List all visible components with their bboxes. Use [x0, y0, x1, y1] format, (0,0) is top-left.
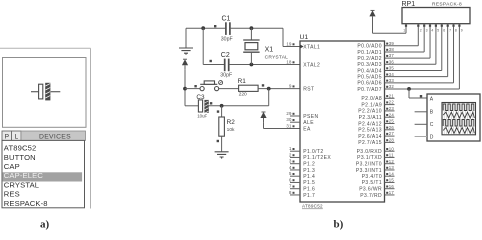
svg-text:ALE: ALE	[303, 120, 314, 126]
svg-text:6: 6	[289, 177, 292, 182]
preview CAP-ELEC symbol	[31, 83, 60, 101]
svg-text:C1: C1	[222, 15, 231, 22]
pin 9 RST	[289, 84, 314, 93]
svg-text:a): a)	[40, 218, 50, 230]
push button	[200, 81, 223, 91]
svg-text:CAP-ELEC: CAP-ELEC	[4, 171, 44, 180]
pin-end marker button-left	[194, 85, 196, 87]
svg-text:XTAL2: XTAL2	[303, 62, 320, 68]
svg-text:17: 17	[389, 190, 395, 195]
svg-text:PSEN: PSEN	[303, 114, 318, 120]
svg-text:P1.3: P1.3	[303, 168, 315, 174]
pin 12 P3.2/INT0	[356, 159, 395, 168]
svg-text:U1: U1	[300, 34, 309, 41]
wire VCC down to C3 row	[185, 70, 198, 106]
pin 5 P1.4	[289, 171, 315, 180]
resistor R1	[238, 78, 259, 98]
RP1 pin 3 / wire to P0.1	[385, 24, 428, 52]
svg-text:R2: R2	[227, 119, 236, 126]
svg-text:BUTTON: BUTTON	[4, 153, 36, 162]
ground (crystal caps)	[179, 28, 193, 55]
svg-text:CAP: CAP	[4, 162, 20, 171]
label AT89C52	[302, 204, 323, 209]
svg-text:6: 6	[443, 29, 445, 33]
svg-text:38: 38	[389, 47, 395, 52]
svg-text:C2: C2	[221, 52, 230, 59]
svg-text:P2.6/A14: P2.6/A14	[358, 134, 382, 140]
selected row highlight CAP-ELEC	[3, 171, 83, 181]
svg-text:10: 10	[389, 146, 395, 151]
wire C2 to XTAL2 pin	[229, 64, 300, 66]
wire gnd bus C1 to C2	[203, 28, 224, 64]
pin 16 P3.6/WR	[359, 184, 394, 193]
scope trace C (square)	[443, 120, 474, 127]
svg-text:35: 35	[389, 66, 395, 71]
svg-text:31: 31	[286, 123, 292, 128]
pin 8 P1.7	[289, 190, 315, 199]
node button/VCC junction	[183, 87, 187, 91]
pin-end marker C1	[214, 25, 216, 27]
capacitor C2	[220, 52, 232, 78]
svg-text:P3.3/INT1: P3.3/INT1	[356, 168, 382, 174]
scope trace A (square)	[443, 104, 474, 111]
RP1 pin 7 / wire to P0.5	[385, 24, 452, 77]
pin 39 P0.0/AD0	[357, 41, 394, 50]
wire stub scope C	[415, 123, 427, 125]
svg-text:P0.7/AD7: P0.7/AD7	[357, 87, 382, 93]
RP1 pin 4 / wire to P0.2	[385, 24, 434, 58]
power VCC terminal (reset)	[182, 59, 188, 70]
device list box	[2, 140, 85, 207]
svg-text:P1.5: P1.5	[303, 180, 315, 186]
node XTAL1 net	[250, 26, 254, 30]
svg-text:P2.5/A13: P2.5/A13	[358, 128, 382, 134]
svg-text:P1.0/T2: P1.0/T2	[303, 149, 323, 155]
svg-text:12: 12	[389, 159, 395, 164]
svg-text:24: 24	[389, 112, 395, 117]
svg-text:22: 22	[389, 100, 395, 105]
svg-text:R1: R1	[238, 78, 247, 85]
wire RST junction down to R2 row	[209, 89, 269, 106]
svg-text:25: 25	[389, 119, 395, 124]
svg-text:18: 18	[286, 59, 292, 64]
svg-text:37: 37	[389, 53, 395, 58]
pin-end marker R2-top	[217, 110, 219, 112]
svg-text:P3.4/T0: P3.4/T0	[362, 174, 382, 180]
svg-text:4: 4	[289, 165, 292, 170]
svg-text:P1.1/T2EX: P1.1/T2EX	[303, 155, 331, 161]
wire GND to C1	[186, 27, 226, 29]
device list item AT89C52	[4, 144, 37, 153]
pin 18 XTAL2	[286, 59, 320, 68]
svg-text:P0.6/AD6: P0.6/AD6	[357, 81, 382, 87]
caption b)	[334, 218, 344, 230]
pin 37 P0.2/AD2	[357, 53, 394, 62]
svg-text:1: 1	[289, 146, 292, 151]
op U1 AT89C52 body	[300, 34, 385, 202]
svg-text:CRYSTAL: CRYSTAL	[265, 55, 289, 61]
node R2 top junction	[220, 104, 224, 108]
svg-text:21: 21	[389, 93, 395, 98]
svg-text:13: 13	[389, 165, 395, 170]
svg-text:P0.4/AD4: P0.4/AD4	[357, 68, 382, 74]
pin 24 P2.3/A11	[359, 112, 395, 121]
svg-text:9: 9	[289, 84, 292, 89]
pin 21 P2.0/A8	[361, 93, 394, 102]
svg-text:2: 2	[289, 152, 292, 157]
svg-text:1: 1	[403, 29, 405, 33]
component preview box	[3, 58, 87, 128]
pin 34 P0.5/AD5	[357, 72, 394, 81]
wire C1 to crystal-top node	[230, 27, 283, 29]
wire stub scope D	[415, 136, 427, 138]
svg-text:30: 30	[286, 117, 292, 122]
svg-text:19: 19	[286, 41, 292, 46]
node RST junction	[267, 87, 271, 91]
svg-text:P3.5/T1: P3.5/T1	[362, 180, 382, 186]
svg-text:P0.1/AD1: P0.1/AD1	[357, 50, 382, 56]
svg-text:C: C	[430, 122, 434, 128]
svg-text:14: 14	[389, 171, 395, 176]
svg-text:7: 7	[289, 184, 292, 189]
pin 23 P2.2/A10	[358, 106, 394, 115]
oscilloscope body	[427, 94, 480, 141]
svg-text:RESPACK-8: RESPACK-8	[432, 2, 462, 8]
pin 2 P1.1/T2EX	[289, 152, 331, 161]
svg-text:P1.6: P1.6	[303, 187, 315, 193]
svg-text:P3.1/TXD: P3.1/TXD	[357, 155, 382, 161]
svg-text:P0.0/AD0: P0.0/AD0	[357, 44, 382, 50]
svg-text:30pF: 30pF	[220, 72, 232, 78]
device list item RES	[4, 190, 20, 199]
pin 26 P2.5/A13	[358, 125, 394, 134]
svg-text:3: 3	[289, 159, 292, 164]
wire R1 to RST pin	[258, 88, 300, 90]
svg-text:b): b)	[334, 218, 344, 230]
svg-text:5: 5	[437, 29, 439, 33]
pin 29 PSEN	[286, 111, 318, 120]
device list item RESPACK-8	[4, 199, 48, 208]
svg-text:4: 4	[431, 29, 433, 33]
svg-text:27: 27	[389, 131, 395, 136]
pin 30 ALE	[286, 117, 314, 126]
power VCC terminal (EA)	[260, 112, 266, 123]
svg-text:33: 33	[389, 78, 395, 83]
svg-text:7: 7	[449, 29, 451, 33]
svg-text:15: 15	[389, 178, 395, 183]
svg-text:C3: C3	[196, 94, 205, 101]
svg-text:9: 9	[461, 29, 463, 33]
svg-text:29: 29	[286, 111, 292, 116]
pin-end marker C3-right	[210, 102, 212, 104]
svg-text:P0.3/AD3: P0.3/AD3	[357, 62, 382, 68]
scope trace D (zigzag)	[443, 128, 474, 134]
svg-text:23: 23	[389, 106, 395, 111]
panel container frame	[0, 48, 91, 208]
pin-end marker R1-right	[262, 84, 264, 86]
pin 7 P1.6	[289, 184, 315, 193]
svg-text:P: P	[5, 133, 10, 140]
wire VCC to EA pin	[264, 123, 301, 129]
svg-text:28: 28	[389, 138, 395, 143]
svg-text:10k: 10k	[227, 127, 235, 133]
pin 22 P2.1/A9	[361, 100, 394, 109]
RP1 pin 9 / wire to P0.7	[385, 24, 463, 89]
pin 17 P3.7/RD	[360, 190, 394, 199]
RP1 pin 1	[373, 21, 408, 33]
pin 35 P0.4/AD4	[357, 66, 394, 75]
svg-text:P0.5/AD5: P0.5/AD5	[357, 75, 382, 81]
DEVICES title bar	[21, 131, 86, 140]
svg-text:39: 39	[389, 41, 395, 46]
svg-text:D: D	[430, 134, 434, 140]
oscilloscope screen	[442, 103, 476, 135]
wire stub scope B	[415, 111, 427, 113]
svg-text:RESPACK-8: RESPACK-8	[4, 199, 48, 208]
svg-text:RES: RES	[4, 190, 20, 199]
svg-text:XTAL1: XTAL1	[303, 44, 320, 50]
svg-text:P1.7: P1.7	[303, 193, 315, 199]
RP1 pin 5 / wire to P0.3	[385, 24, 440, 65]
svg-text:32: 32	[389, 84, 395, 89]
svg-text:P3.6/WR: P3.6/WR	[359, 187, 382, 193]
svg-text:P3.7/RD: P3.7/RD	[360, 193, 382, 199]
pin 10 P3.0/RXD	[357, 146, 395, 155]
svg-text:P1.4: P1.4	[303, 174, 315, 180]
pin 33 P0.6/AD6	[357, 78, 394, 87]
svg-text:10uF: 10uF	[197, 113, 207, 118]
pin 27 P2.6/A14	[358, 131, 394, 140]
pin 6 P1.5	[289, 177, 315, 186]
svg-text:AT89C52: AT89C52	[4, 144, 37, 153]
svg-text:P2.4/A12: P2.4/A12	[358, 121, 382, 127]
scope trace B (zigzag)	[443, 112, 474, 118]
pin 38 P0.1/AD1	[357, 47, 394, 56]
pin 25 P2.4/A12	[358, 119, 394, 128]
resistor R2	[219, 106, 235, 152]
svg-text:30pF: 30pF	[221, 37, 233, 43]
node XTAL2 net	[250, 63, 254, 67]
wire VCC junction to button	[185, 88, 200, 90]
ground (R2)	[215, 152, 229, 159]
P button	[2, 131, 12, 140]
L button	[12, 131, 22, 140]
pin 15 P3.5/T1	[362, 178, 395, 187]
caption a)	[40, 218, 50, 230]
pin 4 P1.3	[289, 165, 315, 174]
RP1 pin 6 / wire to P0.4	[385, 24, 446, 71]
pin 13 P3.3/INT1	[356, 165, 395, 174]
svg-text:220: 220	[239, 92, 247, 98]
power VCC terminal (RP1)	[369, 10, 375, 21]
pin-end marker scope A	[420, 95, 422, 97]
pin 28 P2.7/A15	[358, 138, 394, 147]
svg-text:3: 3	[426, 29, 428, 33]
svg-text:AT89C52: AT89C52	[302, 204, 323, 209]
svg-text:36: 36	[389, 59, 395, 64]
svg-text:26: 26	[389, 125, 395, 130]
pin 14 P3.4/T0	[362, 171, 395, 180]
svg-text:RP1: RP1	[402, 1, 416, 8]
svg-text:16: 16	[389, 184, 395, 189]
pin 11 P3.1/TXD	[357, 153, 394, 162]
RP1 pin 2 / wire to P0.0	[385, 24, 422, 46]
svg-text:34: 34	[389, 72, 395, 77]
node P0.7/scope junction	[407, 87, 411, 91]
svg-text:P0.2/AD2: P0.2/AD2	[357, 56, 382, 62]
svg-text:P2.7/A15: P2.7/A15	[358, 140, 382, 146]
pin 3 P1.2	[289, 159, 315, 168]
svg-text:2: 2	[420, 29, 422, 33]
pin 31 EA	[286, 123, 311, 132]
svg-text:P3.2/INT0: P3.2/INT0	[356, 162, 382, 168]
pin-end marker C2	[210, 60, 212, 62]
svg-text:P2.3/A11: P2.3/A11	[359, 115, 382, 121]
RP1 pin 8 / wire to P0.6	[385, 24, 457, 83]
wire crystal-top node to XTAL1 pin	[283, 28, 300, 46]
pin 32 P0.7/AD7	[357, 84, 394, 93]
svg-text:8: 8	[289, 190, 292, 195]
pin-end marker R2-bottom	[217, 140, 219, 142]
device list item BUTTON	[4, 153, 36, 162]
capacitor C1	[221, 15, 233, 42]
device list item CAP	[4, 162, 20, 171]
svg-text:P2.0/A8: P2.0/A8	[361, 96, 382, 102]
svg-text:L: L	[14, 133, 18, 140]
svg-text:DEVICES: DEVICES	[39, 133, 71, 140]
node C1-left junction	[201, 26, 205, 30]
crystal X1	[243, 28, 288, 64]
svg-text:11: 11	[389, 153, 394, 158]
wire button to R1	[219, 88, 239, 90]
svg-text:RST: RST	[303, 86, 314, 92]
svg-text:EA: EA	[303, 126, 311, 132]
pin 1 P1.0/T2	[289, 146, 324, 155]
svg-text:X1: X1	[265, 46, 274, 53]
capacitor C3 (electrolytic)	[196, 94, 208, 119]
svg-text:5: 5	[289, 171, 292, 176]
wire junction to scope A	[409, 89, 427, 98]
device list item CRYSTAL	[4, 180, 39, 189]
pin 36 P0.3/AD3	[357, 59, 394, 68]
svg-text:8: 8	[455, 29, 457, 33]
svg-text:P2.1/A9: P2.1/A9	[361, 102, 382, 108]
svg-text:P1.2: P1.2	[303, 162, 315, 168]
svg-text:CRYSTAL: CRYSTAL	[4, 180, 39, 189]
svg-text:P2.2/A10: P2.2/A10	[358, 109, 382, 115]
resistor pack RP1 body	[402, 1, 471, 24]
svg-text:P3.0/RXD: P3.0/RXD	[357, 149, 382, 155]
pin 19 XTAL1	[286, 41, 320, 50]
